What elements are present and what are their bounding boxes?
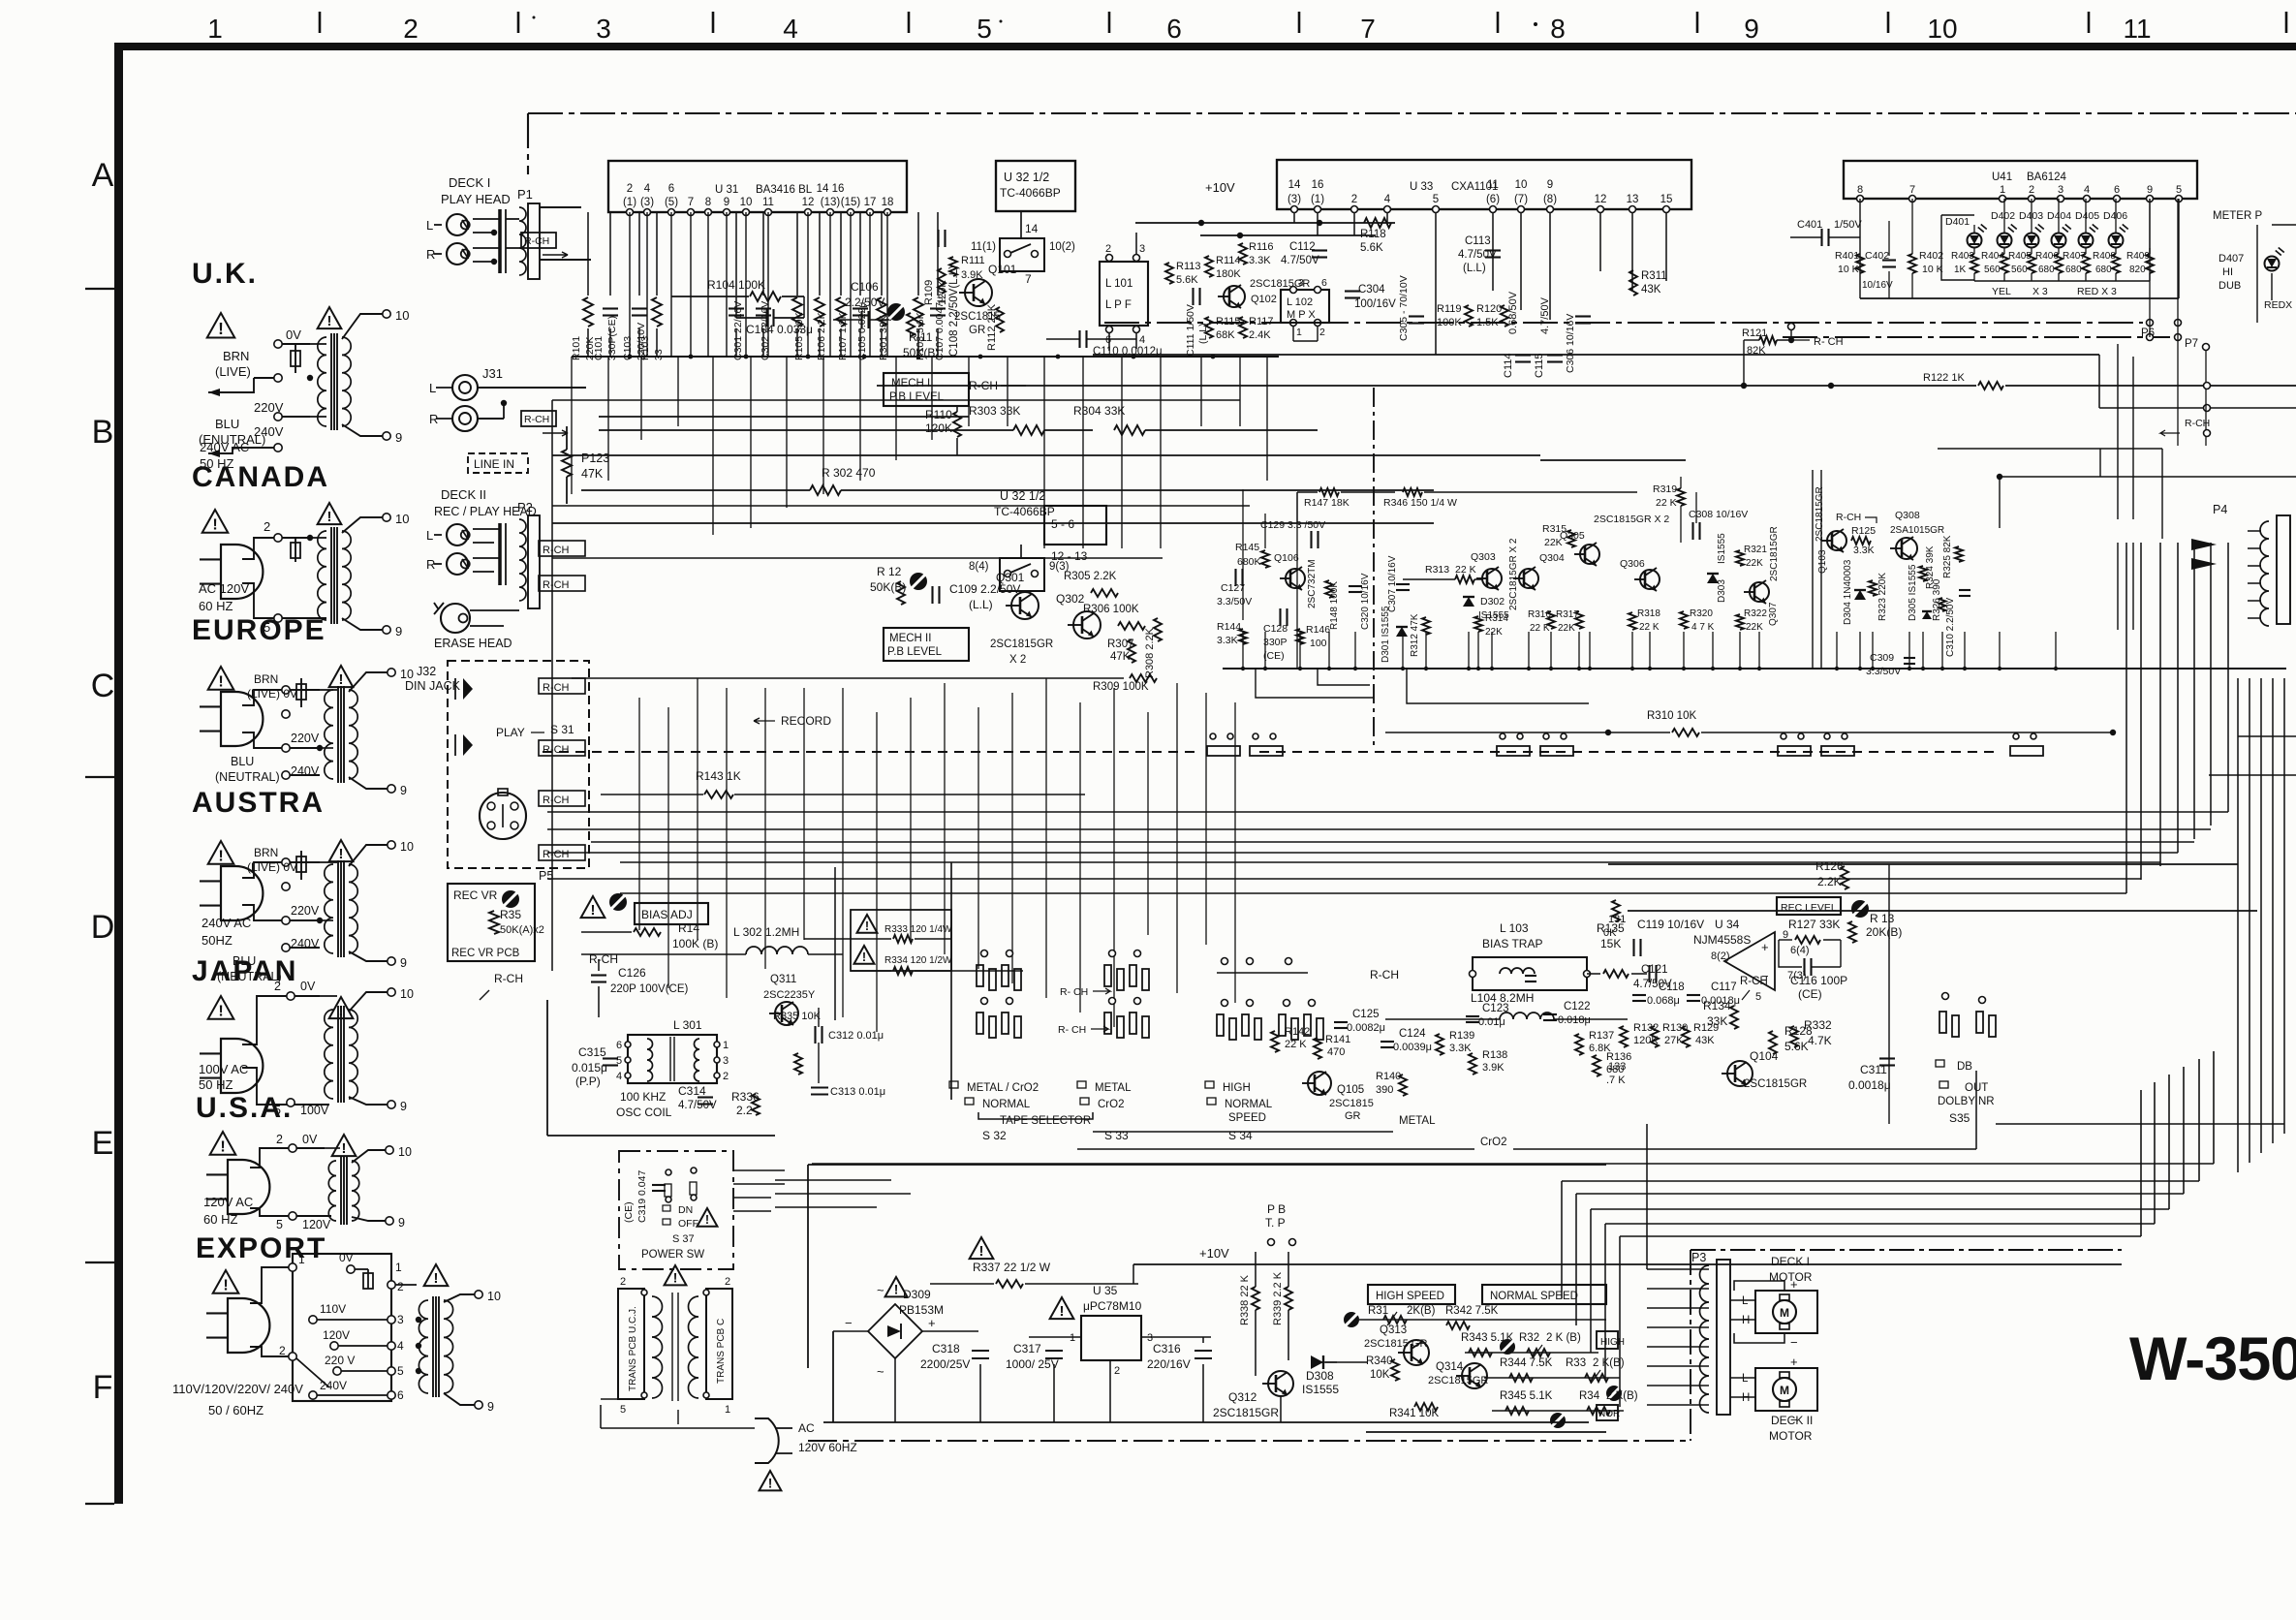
svg-text:4: 4 xyxy=(1139,334,1145,346)
svg-text:2.2: 2.2 xyxy=(736,1104,753,1117)
svg-text:(15): (15) xyxy=(841,197,861,208)
svg-text:0V: 0V xyxy=(302,1133,318,1146)
svg-text:22 K: 22 K xyxy=(1530,623,1550,634)
svg-text:10: 10 xyxy=(487,1290,501,1303)
svg-text:R120: R120 xyxy=(1476,303,1502,315)
svg-text:2 K (B): 2 K (B) xyxy=(1546,1332,1581,1344)
svg-text:IS1555: IS1555 xyxy=(1717,533,1727,564)
svg-text:M P X: M P X xyxy=(1287,309,1316,321)
svg-text:R137: R137 xyxy=(1589,1030,1614,1042)
svg-text:R113: R113 xyxy=(1176,261,1200,272)
svg-text:R- CH: R- CH xyxy=(1060,986,1088,998)
svg-text:METAL: METAL xyxy=(1399,1115,1436,1127)
svg-text:EXPORT: EXPORT xyxy=(196,1232,326,1264)
svg-text:U 35: U 35 xyxy=(1093,1284,1118,1297)
svg-text:R109: R109 xyxy=(923,280,935,305)
svg-text:8: 8 xyxy=(1857,184,1863,196)
svg-text:680: 680 xyxy=(2065,265,2082,275)
svg-text:(CE): (CE) xyxy=(1263,650,1285,662)
svg-text:X 3: X 3 xyxy=(2032,286,2048,297)
svg-text:R314: R314 xyxy=(1485,613,1508,624)
svg-text:L 301: L 301 xyxy=(673,1018,702,1032)
svg-text:(1): (1) xyxy=(623,197,636,208)
svg-text:A: A xyxy=(92,157,114,194)
svg-text:Q303: Q303 xyxy=(1471,551,1496,563)
svg-text:9: 9 xyxy=(400,784,407,797)
svg-text:16: 16 xyxy=(1312,179,1324,191)
svg-text:R127 33K: R127 33K xyxy=(1788,918,1840,931)
svg-text:560: 560 xyxy=(1984,265,2001,275)
svg-text:U 34: U 34 xyxy=(1715,918,1740,931)
svg-text:9: 9 xyxy=(1744,14,1759,44)
svg-text:220/16V: 220/16V xyxy=(1147,1357,1191,1371)
svg-text:~: ~ xyxy=(877,1283,884,1297)
svg-text:E: E xyxy=(92,1125,114,1162)
svg-text:110V: 110V xyxy=(320,1302,346,1316)
svg-text:2SC1815: 2SC1815 xyxy=(1329,1098,1374,1109)
svg-text:C126: C126 xyxy=(618,966,646,980)
svg-text:L 103: L 103 xyxy=(1500,921,1529,935)
svg-text:R118: R118 xyxy=(1360,229,1386,240)
svg-text:240V AC: 240V AC xyxy=(200,440,249,454)
svg-text:2SC2235Y: 2SC2235Y xyxy=(763,989,816,1001)
svg-text:6: 6 xyxy=(1166,14,1182,44)
svg-text:R116: R116 xyxy=(1249,241,1273,253)
svg-text:D304 1N40003: D304 1N40003 xyxy=(1843,559,1853,625)
svg-text:133: 133 xyxy=(1608,1061,1626,1073)
svg-text:R320: R320 xyxy=(1690,608,1713,619)
svg-text:120K: 120K xyxy=(925,421,952,435)
svg-text:R344 7.5K: R344 7.5K xyxy=(1500,1357,1553,1369)
svg-text:R 12: R 12 xyxy=(877,565,902,578)
svg-text:120V AC: 120V AC xyxy=(203,1195,253,1209)
svg-text:RED X 3: RED X 3 xyxy=(2077,286,2117,297)
svg-text:2.2/50V: 2.2/50V xyxy=(845,296,884,309)
svg-text:1: 1 xyxy=(395,1261,402,1274)
svg-text:L: L xyxy=(1742,1373,1749,1385)
svg-text:2: 2 xyxy=(1351,194,1357,205)
svg-text:HI: HI xyxy=(2222,266,2233,278)
svg-text:IS1555: IS1555 xyxy=(1302,1383,1339,1396)
svg-text:11: 11 xyxy=(2123,14,2151,44)
svg-text:C309: C309 xyxy=(1870,652,1894,664)
svg-text:3: 3 xyxy=(596,14,611,44)
svg-text:(8): (8) xyxy=(1543,194,1557,205)
svg-text:7: 7 xyxy=(1360,14,1376,44)
svg-text:Q313: Q313 xyxy=(1380,1324,1407,1336)
svg-text:100V: 100V xyxy=(300,1104,329,1117)
svg-text:2: 2 xyxy=(725,1276,730,1288)
svg-text:J32: J32 xyxy=(417,665,436,678)
svg-text:!: ! xyxy=(223,1276,228,1293)
svg-text:Q105: Q105 xyxy=(1337,1084,1364,1096)
svg-text:HIGH: HIGH xyxy=(1223,1082,1251,1094)
svg-text:60 HZ: 60 HZ xyxy=(199,599,233,613)
svg-text:+: + xyxy=(928,1316,936,1330)
svg-text:R313: R313 xyxy=(1425,564,1449,576)
svg-text:0K: 0K xyxy=(1603,927,1617,939)
svg-text:Q106: Q106 xyxy=(1274,552,1299,564)
svg-text:R144: R144 xyxy=(1217,621,1241,633)
svg-text:MECH I: MECH I xyxy=(891,378,930,389)
svg-text:220P 100V(CE): 220P 100V(CE) xyxy=(610,983,689,995)
svg-text:3.3K: 3.3K xyxy=(1449,1043,1472,1054)
svg-text:SPEED: SPEED xyxy=(1228,1112,1266,1124)
svg-text:L 102: L 102 xyxy=(1287,296,1313,308)
svg-text:!: ! xyxy=(1060,1303,1065,1320)
svg-text:R14: R14 xyxy=(678,921,699,935)
svg-text:AC 120V: AC 120V xyxy=(199,581,249,596)
svg-text:4: 4 xyxy=(783,14,798,44)
svg-text:9: 9 xyxy=(1547,179,1553,191)
svg-text:−: − xyxy=(1790,1335,1798,1350)
svg-text:R-CH: R-CH xyxy=(1740,976,1768,987)
svg-text:22 K: 22 K xyxy=(1639,622,1660,633)
svg-text:R32: R32 xyxy=(1519,1332,1539,1344)
svg-text:3.3K: 3.3K xyxy=(1249,255,1271,266)
svg-text:ERASE HEAD: ERASE HEAD xyxy=(434,637,512,650)
svg-text:S35: S35 xyxy=(1949,1111,1970,1125)
svg-text:D407: D407 xyxy=(2218,253,2244,265)
svg-text:J31: J31 xyxy=(482,366,503,381)
svg-text:R 13: R 13 xyxy=(1870,912,1895,925)
svg-text:(L.L): (L.L) xyxy=(1463,263,1486,274)
svg-text:R406: R406 xyxy=(2035,251,2059,262)
svg-text:R-CH: R-CH xyxy=(494,972,523,985)
svg-text:R318: R318 xyxy=(1637,608,1660,619)
svg-text:METAL: METAL xyxy=(1095,1082,1132,1094)
svg-text:R 302 470: R 302 470 xyxy=(822,466,876,480)
svg-text:22 K: 22 K xyxy=(1656,497,1677,509)
svg-text:1: 1 xyxy=(298,1253,305,1266)
svg-text:U 31: U 31 xyxy=(715,184,738,196)
svg-text:8(2): 8(2) xyxy=(1711,950,1730,962)
svg-text:C110 0.0012μ: C110 0.0012μ xyxy=(1093,346,1163,358)
svg-text:!: ! xyxy=(979,1243,984,1260)
svg-text:5: 5 xyxy=(977,14,992,44)
svg-text:BA3416 BL: BA3416 BL xyxy=(756,184,813,196)
svg-text:5: 5 xyxy=(397,1364,404,1378)
svg-text:!: ! xyxy=(327,313,332,329)
svg-text:S 34: S 34 xyxy=(1228,1129,1253,1142)
svg-text:0.068μ: 0.068μ xyxy=(1647,995,1680,1007)
svg-text:0V: 0V xyxy=(300,980,316,993)
svg-text:C117: C117 xyxy=(1711,981,1737,993)
svg-text:8: 8 xyxy=(705,197,711,208)
svg-text:2 K(B): 2 K(B) xyxy=(1606,1390,1638,1402)
svg-text:MOTOR: MOTOR xyxy=(1769,1429,1813,1443)
svg-text:U 32 1/2: U 32 1/2 xyxy=(1000,489,1045,503)
svg-text:3: 3 xyxy=(1147,1332,1153,1344)
svg-text:9: 9 xyxy=(398,1216,405,1230)
svg-text:10: 10 xyxy=(400,840,414,854)
svg-text:43K: 43K xyxy=(1695,1035,1715,1046)
svg-text:R409: R409 xyxy=(2126,251,2150,262)
svg-text:Q311: Q311 xyxy=(770,974,796,985)
svg-text:7: 7 xyxy=(1025,272,1032,286)
svg-text:7: 7 xyxy=(688,197,694,208)
svg-text:2SC732TM: 2SC732TM xyxy=(1307,559,1318,608)
svg-text:6: 6 xyxy=(1105,334,1111,346)
svg-text:2: 2 xyxy=(2029,184,2034,196)
svg-text:9: 9 xyxy=(724,197,729,208)
svg-text:2SC1815GR: 2SC1815GR xyxy=(1815,486,1825,542)
svg-text:10: 10 xyxy=(740,197,753,208)
svg-text:14: 14 xyxy=(1025,222,1039,235)
svg-text:20K(B): 20K(B) xyxy=(1866,925,1902,939)
svg-text:!: ! xyxy=(673,1270,678,1285)
svg-text:C111 1/50V: C111 1/50V xyxy=(1185,304,1196,357)
svg-text:BRN: BRN xyxy=(223,349,249,363)
svg-text:U.S.A.: U.S.A. xyxy=(196,1092,293,1124)
svg-text:10 K: 10 K xyxy=(1922,264,1943,275)
svg-text:DN: DN xyxy=(678,1204,693,1216)
svg-text:S 31: S 31 xyxy=(550,723,574,736)
svg-text:L: L xyxy=(426,218,433,233)
svg-text:D: D xyxy=(91,909,115,946)
svg-text:Q302: Q302 xyxy=(1056,592,1085,606)
svg-text:22K: 22K xyxy=(1485,627,1503,638)
svg-text:DECK II: DECK II xyxy=(441,487,486,502)
svg-text:TC-4066BP: TC-4066BP xyxy=(1000,186,1061,200)
svg-text:R138: R138 xyxy=(1482,1049,1507,1061)
svg-text:10/16V: 10/16V xyxy=(1862,280,1893,291)
svg-text:C123: C123 xyxy=(1482,1003,1509,1014)
svg-text:NORMAL: NORMAL xyxy=(1225,1099,1273,1110)
svg-text:L 302 1.2MH: L 302 1.2MH xyxy=(733,925,799,939)
svg-text:D309: D309 xyxy=(903,1288,931,1301)
svg-text:(3): (3) xyxy=(1288,194,1301,205)
svg-text:DIN JACK: DIN JACK xyxy=(405,679,461,693)
svg-text:C112: C112 xyxy=(1289,241,1316,253)
svg-text:6: 6 xyxy=(1321,277,1327,289)
svg-text:Q304: Q304 xyxy=(1539,552,1565,564)
svg-text:R: R xyxy=(426,247,435,262)
svg-text:L: L xyxy=(426,528,433,543)
svg-text:2: 2 xyxy=(274,980,281,993)
svg-text:R-CH: R-CH xyxy=(2185,418,2210,429)
svg-text:2: 2 xyxy=(1114,1365,1120,1377)
svg-text:TRANS PCB C: TRANS PCB C xyxy=(716,1319,727,1384)
svg-text:0.0018μ: 0.0018μ xyxy=(1848,1078,1891,1092)
svg-text:3: 3 xyxy=(2058,184,2063,196)
svg-text:REC LEVEL: REC LEVEL xyxy=(1781,902,1837,914)
svg-text:9: 9 xyxy=(400,956,407,970)
svg-text:PLAY: PLAY xyxy=(496,726,525,739)
svg-text:2SC1815GR: 2SC1815GR xyxy=(1744,1078,1807,1090)
svg-text:R340: R340 xyxy=(1366,1355,1393,1367)
svg-text:9: 9 xyxy=(395,624,402,639)
svg-text:H: H xyxy=(1742,1315,1750,1326)
svg-text:4 7 K: 4 7 K xyxy=(1691,622,1715,633)
svg-text:R119: R119 xyxy=(1437,303,1461,315)
svg-text:6: 6 xyxy=(616,1040,622,1051)
svg-text:!: ! xyxy=(218,1002,223,1019)
svg-text:11(1): 11(1) xyxy=(971,241,996,253)
svg-text:NJM4558S: NJM4558S xyxy=(1693,933,1751,947)
svg-text:(CE): (CE) xyxy=(1798,987,1822,1001)
svg-text:8(4): 8(4) xyxy=(969,561,989,573)
svg-text:L 101: L 101 xyxy=(1105,278,1132,290)
svg-text:DUB: DUB xyxy=(2218,280,2241,292)
svg-text:0V: 0V xyxy=(286,327,301,342)
svg-text:!: ! xyxy=(705,1213,709,1227)
svg-text:2SC1815GR: 2SC1815GR xyxy=(1213,1406,1279,1419)
svg-text:100/16V: 100/16V xyxy=(1354,298,1396,310)
svg-text:60 HZ: 60 HZ xyxy=(203,1212,237,1227)
svg-text:50 HZ: 50 HZ xyxy=(199,1077,233,1092)
svg-text:2200/25V: 2200/25V xyxy=(920,1357,970,1371)
svg-text:0.0018μ: 0.0018μ xyxy=(1701,995,1740,1007)
svg-text:0.01μ: 0.01μ xyxy=(1478,1016,1505,1028)
svg-text:50HZ: 50HZ xyxy=(202,933,233,948)
svg-text:OSC COIL: OSC COIL xyxy=(616,1106,672,1119)
svg-text:R-CH: R-CH xyxy=(1836,512,1861,523)
svg-text:2: 2 xyxy=(397,1280,404,1293)
svg-text:4: 4 xyxy=(1384,194,1391,205)
svg-text:R339 2.2 K: R339 2.2 K xyxy=(1272,1271,1284,1325)
svg-text:1: 1 xyxy=(1296,327,1302,338)
svg-text:22K: 22K xyxy=(1746,622,1763,633)
svg-text:C116 100P: C116 100P xyxy=(1790,974,1847,987)
svg-text:P.B LEVEL: P.B LEVEL xyxy=(887,646,943,658)
svg-text:330P(CE): 330P(CE) xyxy=(606,316,618,360)
svg-text:.7 K: .7 K xyxy=(1606,1075,1626,1086)
svg-text:2: 2 xyxy=(403,14,419,44)
svg-text:C128: C128 xyxy=(1263,623,1288,635)
svg-text:R309 100K: R309 100K xyxy=(1093,681,1149,693)
svg-text:L: L xyxy=(1742,1295,1749,1307)
svg-text:!: ! xyxy=(327,509,332,525)
svg-text:5: 5 xyxy=(1433,194,1439,205)
svg-text:C129 3.3 /50V: C129 3.3 /50V xyxy=(1260,519,1325,531)
svg-text:10K: 10K xyxy=(1370,1369,1390,1381)
svg-text:R147 18K: R147 18K xyxy=(1304,497,1350,509)
svg-text:43K: 43K xyxy=(1641,284,1661,296)
svg-text:Q307: Q307 xyxy=(1768,602,1779,626)
svg-text:50K(A)x2: 50K(A)x2 xyxy=(500,924,544,936)
svg-text:12: 12 xyxy=(802,197,815,208)
svg-text:2.4K: 2.4K xyxy=(1249,329,1271,341)
svg-text:Q301: Q301 xyxy=(996,571,1025,584)
svg-text:C115: C115 xyxy=(1534,354,1545,378)
svg-text:120V 60HZ: 120V 60HZ xyxy=(798,1441,857,1454)
svg-text:R345 5.1K: R345 5.1K xyxy=(1500,1390,1553,1402)
svg-text:C310 2.2/50V: C310 2.2/50V xyxy=(1945,598,1956,657)
svg-text:C113: C113 xyxy=(1465,235,1491,247)
svg-text:120V: 120V xyxy=(302,1218,331,1231)
svg-text:!: ! xyxy=(339,671,344,688)
svg-text:R139: R139 xyxy=(1449,1030,1474,1042)
svg-text:220 V: 220 V xyxy=(325,1354,355,1367)
svg-text:4: 4 xyxy=(397,1339,404,1353)
svg-text:R-CH: R-CH xyxy=(1370,968,1399,981)
svg-text:D401: D401 xyxy=(1945,216,1970,228)
svg-text:BIAS ADJ: BIAS ADJ xyxy=(641,908,693,921)
svg-text:0.015μ: 0.015μ xyxy=(572,1061,607,1075)
svg-text:AC: AC xyxy=(798,1421,815,1435)
svg-text:C114: C114 xyxy=(1503,354,1514,378)
svg-text:U.K.: U.K. xyxy=(192,258,258,290)
svg-text:3: 3 xyxy=(397,1313,404,1326)
svg-text:4: 4 xyxy=(644,183,651,195)
svg-text:BA6124: BA6124 xyxy=(2027,171,2067,183)
svg-text:P123: P123 xyxy=(581,452,609,465)
svg-text:22 K: 22 K xyxy=(1285,1039,1307,1050)
svg-text:2K(B): 2K(B) xyxy=(1407,1305,1436,1317)
svg-text:5 - 6: 5 - 6 xyxy=(1051,517,1074,531)
svg-text:PLAY HEAD: PLAY HEAD xyxy=(441,192,511,206)
svg-text:C301 22/16V: C301 22/16V xyxy=(732,301,744,360)
svg-text:4.7/50V: 4.7/50V xyxy=(1539,296,1551,334)
svg-text:240V: 240V xyxy=(254,424,284,439)
svg-text:0.0039μ: 0.0039μ xyxy=(1393,1042,1432,1053)
svg-text:R143 1K: R143 1K xyxy=(696,769,741,783)
svg-text:Q305: Q305 xyxy=(1560,530,1585,542)
svg-text:1: 1 xyxy=(207,14,223,44)
svg-text:TRANS PCB U.C.J.: TRANS PCB U.C.J. xyxy=(628,1306,638,1391)
svg-text:R310 10K: R310 10K xyxy=(1647,710,1696,722)
svg-text:GR: GR xyxy=(969,325,985,336)
svg-text:!: ! xyxy=(218,672,223,690)
svg-text:NORMAL: NORMAL xyxy=(982,1099,1031,1110)
svg-text:560: 560 xyxy=(2011,265,2028,275)
svg-text:R304 33K: R304 33K xyxy=(1073,404,1125,418)
svg-text:470: 470 xyxy=(1327,1046,1345,1058)
svg-text:(CE): (CE) xyxy=(623,1201,635,1223)
svg-text:R146: R146 xyxy=(1306,624,1330,636)
svg-text:R- CH: R- CH xyxy=(1814,336,1844,348)
svg-text:CrO2: CrO2 xyxy=(1098,1099,1124,1110)
svg-text:2: 2 xyxy=(723,1071,729,1082)
svg-text:13: 13 xyxy=(1627,194,1639,205)
svg-text:R403: R403 xyxy=(1951,251,1974,262)
svg-text:2: 2 xyxy=(276,1133,283,1146)
svg-text:R337 22 1/2 W: R337 22 1/2 W xyxy=(973,1261,1051,1274)
svg-text:R317: R317 xyxy=(1556,609,1579,620)
svg-text:3: 3 xyxy=(1139,243,1145,255)
svg-text:9: 9 xyxy=(395,430,402,445)
svg-text:4: 4 xyxy=(2084,184,2090,196)
svg-text:0.68/50V: 0.68/50V xyxy=(1507,291,1519,334)
svg-text:(P.P): (P.P) xyxy=(575,1075,601,1088)
svg-text:17: 17 xyxy=(864,197,877,208)
svg-text:!: ! xyxy=(218,319,224,338)
svg-text:U 32 1/2: U 32 1/2 xyxy=(1004,171,1049,184)
svg-text:15: 15 xyxy=(1660,194,1673,205)
svg-text:JAPAN: JAPAN xyxy=(192,955,297,987)
svg-text:C124: C124 xyxy=(1399,1028,1426,1040)
svg-text:3.3/50V: 3.3/50V xyxy=(1217,596,1252,607)
svg-text:2SC1815GR X 2: 2SC1815GR X 2 xyxy=(1594,514,1669,525)
svg-text:C319 0.047: C319 0.047 xyxy=(636,1170,648,1223)
svg-text:1K: 1K xyxy=(1954,265,1967,275)
svg-text:P1: P1 xyxy=(517,187,533,202)
svg-text:C318: C318 xyxy=(932,1342,960,1355)
svg-text:7: 7 xyxy=(1909,184,1915,196)
svg-text:240V AC: 240V AC xyxy=(202,916,251,930)
svg-text:R401: R401 xyxy=(1835,250,1859,262)
svg-text:9: 9 xyxy=(487,1400,494,1414)
svg-text:R-CH: R-CH xyxy=(543,682,570,694)
svg-text:R104 100K: R104 100K xyxy=(707,278,765,292)
svg-text:TAPE SELECTOR: TAPE SELECTOR xyxy=(1000,1115,1091,1127)
svg-text:R319: R319 xyxy=(1653,483,1677,495)
svg-text:C313 0.01μ: C313 0.01μ xyxy=(830,1086,885,1098)
svg-text:P5: P5 xyxy=(539,869,553,883)
svg-text:14: 14 xyxy=(1288,179,1301,191)
svg-text:68K: 68K xyxy=(1216,329,1235,341)
